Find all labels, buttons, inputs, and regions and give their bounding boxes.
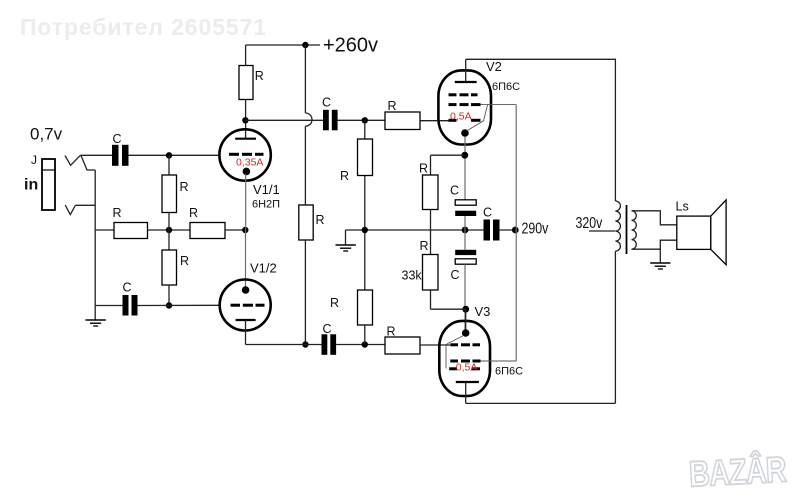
svg-text:C: C xyxy=(113,132,122,146)
svg-text:6П6С: 6П6С xyxy=(492,81,520,93)
svg-text:R: R xyxy=(387,325,396,339)
svg-text:R: R xyxy=(113,206,122,220)
svg-text:V1/2: V1/2 xyxy=(250,261,277,276)
svg-text:0,35A: 0,35A xyxy=(236,157,263,169)
svg-text:C: C xyxy=(451,268,460,282)
svg-text:C: C xyxy=(483,206,492,220)
svg-text:6Н2П: 6Н2П xyxy=(252,199,280,211)
svg-text:R: R xyxy=(180,180,189,194)
svg-text:in: in xyxy=(24,177,38,194)
svg-text:Потребител 2605571: Потребител 2605571 xyxy=(20,14,267,40)
svg-text:+260v: +260v xyxy=(323,35,378,57)
svg-text:R: R xyxy=(420,239,429,253)
svg-text:C: C xyxy=(323,322,332,336)
svg-text:R: R xyxy=(316,213,325,227)
svg-text:C: C xyxy=(450,184,459,198)
svg-text:R: R xyxy=(419,162,428,176)
svg-text:0,7v: 0,7v xyxy=(30,125,63,144)
svg-text:33k: 33k xyxy=(402,269,423,283)
svg-text:V3: V3 xyxy=(475,304,491,319)
svg-text:R: R xyxy=(388,99,397,113)
svg-text:Ls: Ls xyxy=(676,200,689,214)
svg-text:V1/1: V1/1 xyxy=(253,182,280,197)
svg-text:R: R xyxy=(180,254,189,268)
svg-text:C: C xyxy=(322,96,331,110)
svg-text:290v: 290v xyxy=(522,219,549,237)
svg-text:V2: V2 xyxy=(486,59,502,74)
svg-text:0,5A: 0,5A xyxy=(456,361,478,373)
svg-text:0,5A: 0,5A xyxy=(450,110,472,122)
svg-text:R: R xyxy=(340,169,349,183)
svg-text:BAZÂR: BAZÂR xyxy=(688,448,787,494)
svg-text:C: C xyxy=(123,281,132,295)
svg-text:6П6С: 6П6С xyxy=(495,366,523,378)
svg-text:R: R xyxy=(330,296,339,310)
svg-text:J: J xyxy=(31,153,37,167)
svg-text:R: R xyxy=(189,206,198,220)
svg-text:320v: 320v xyxy=(576,214,603,232)
svg-text:R: R xyxy=(255,69,264,83)
